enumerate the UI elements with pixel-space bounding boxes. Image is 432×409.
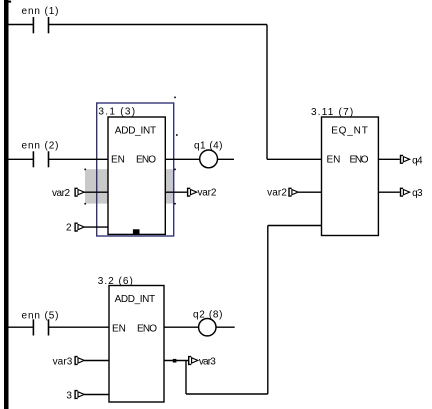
svg-text:enn (1): enn (1)	[22, 6, 59, 17]
svg-text:3.1 (3): 3.1 (3)	[98, 106, 135, 117]
svg-text:3: 3	[66, 391, 72, 402]
svg-text:ENO: ENO	[350, 155, 369, 166]
svg-text:q4: q4	[412, 155, 423, 166]
svg-text:q1 (4): q1 (4)	[194, 141, 223, 152]
svg-text:var2: var2	[52, 188, 70, 199]
svg-text:EN: EN	[327, 155, 341, 166]
svg-text:var3: var3	[199, 357, 216, 368]
svg-text:var2: var2	[198, 188, 217, 199]
svg-text:ADD_INT: ADD_INT	[115, 126, 156, 137]
svg-text:3.2 (6): 3.2 (6)	[98, 276, 133, 287]
svg-text:q3: q3	[412, 188, 423, 199]
svg-text:var3: var3	[53, 357, 73, 368]
svg-text:enn (2): enn (2)	[22, 140, 59, 151]
svg-text:EQ_NT: EQ_NT	[331, 126, 368, 137]
svg-text:q2 (8): q2 (8)	[193, 310, 223, 321]
svg-text:ENO: ENO	[136, 155, 156, 166]
svg-text:ENO: ENO	[137, 323, 157, 334]
svg-text:2: 2	[66, 223, 72, 234]
svg-text:var2: var2	[267, 188, 287, 199]
svg-text:ADD_INT: ADD_INT	[115, 294, 156, 305]
svg-text:enn (5): enn (5)	[22, 310, 59, 321]
svg-text:EN: EN	[111, 155, 125, 166]
svg-text:3.11 (7): 3.11 (7)	[311, 107, 353, 118]
svg-text:EN: EN	[112, 323, 126, 334]
